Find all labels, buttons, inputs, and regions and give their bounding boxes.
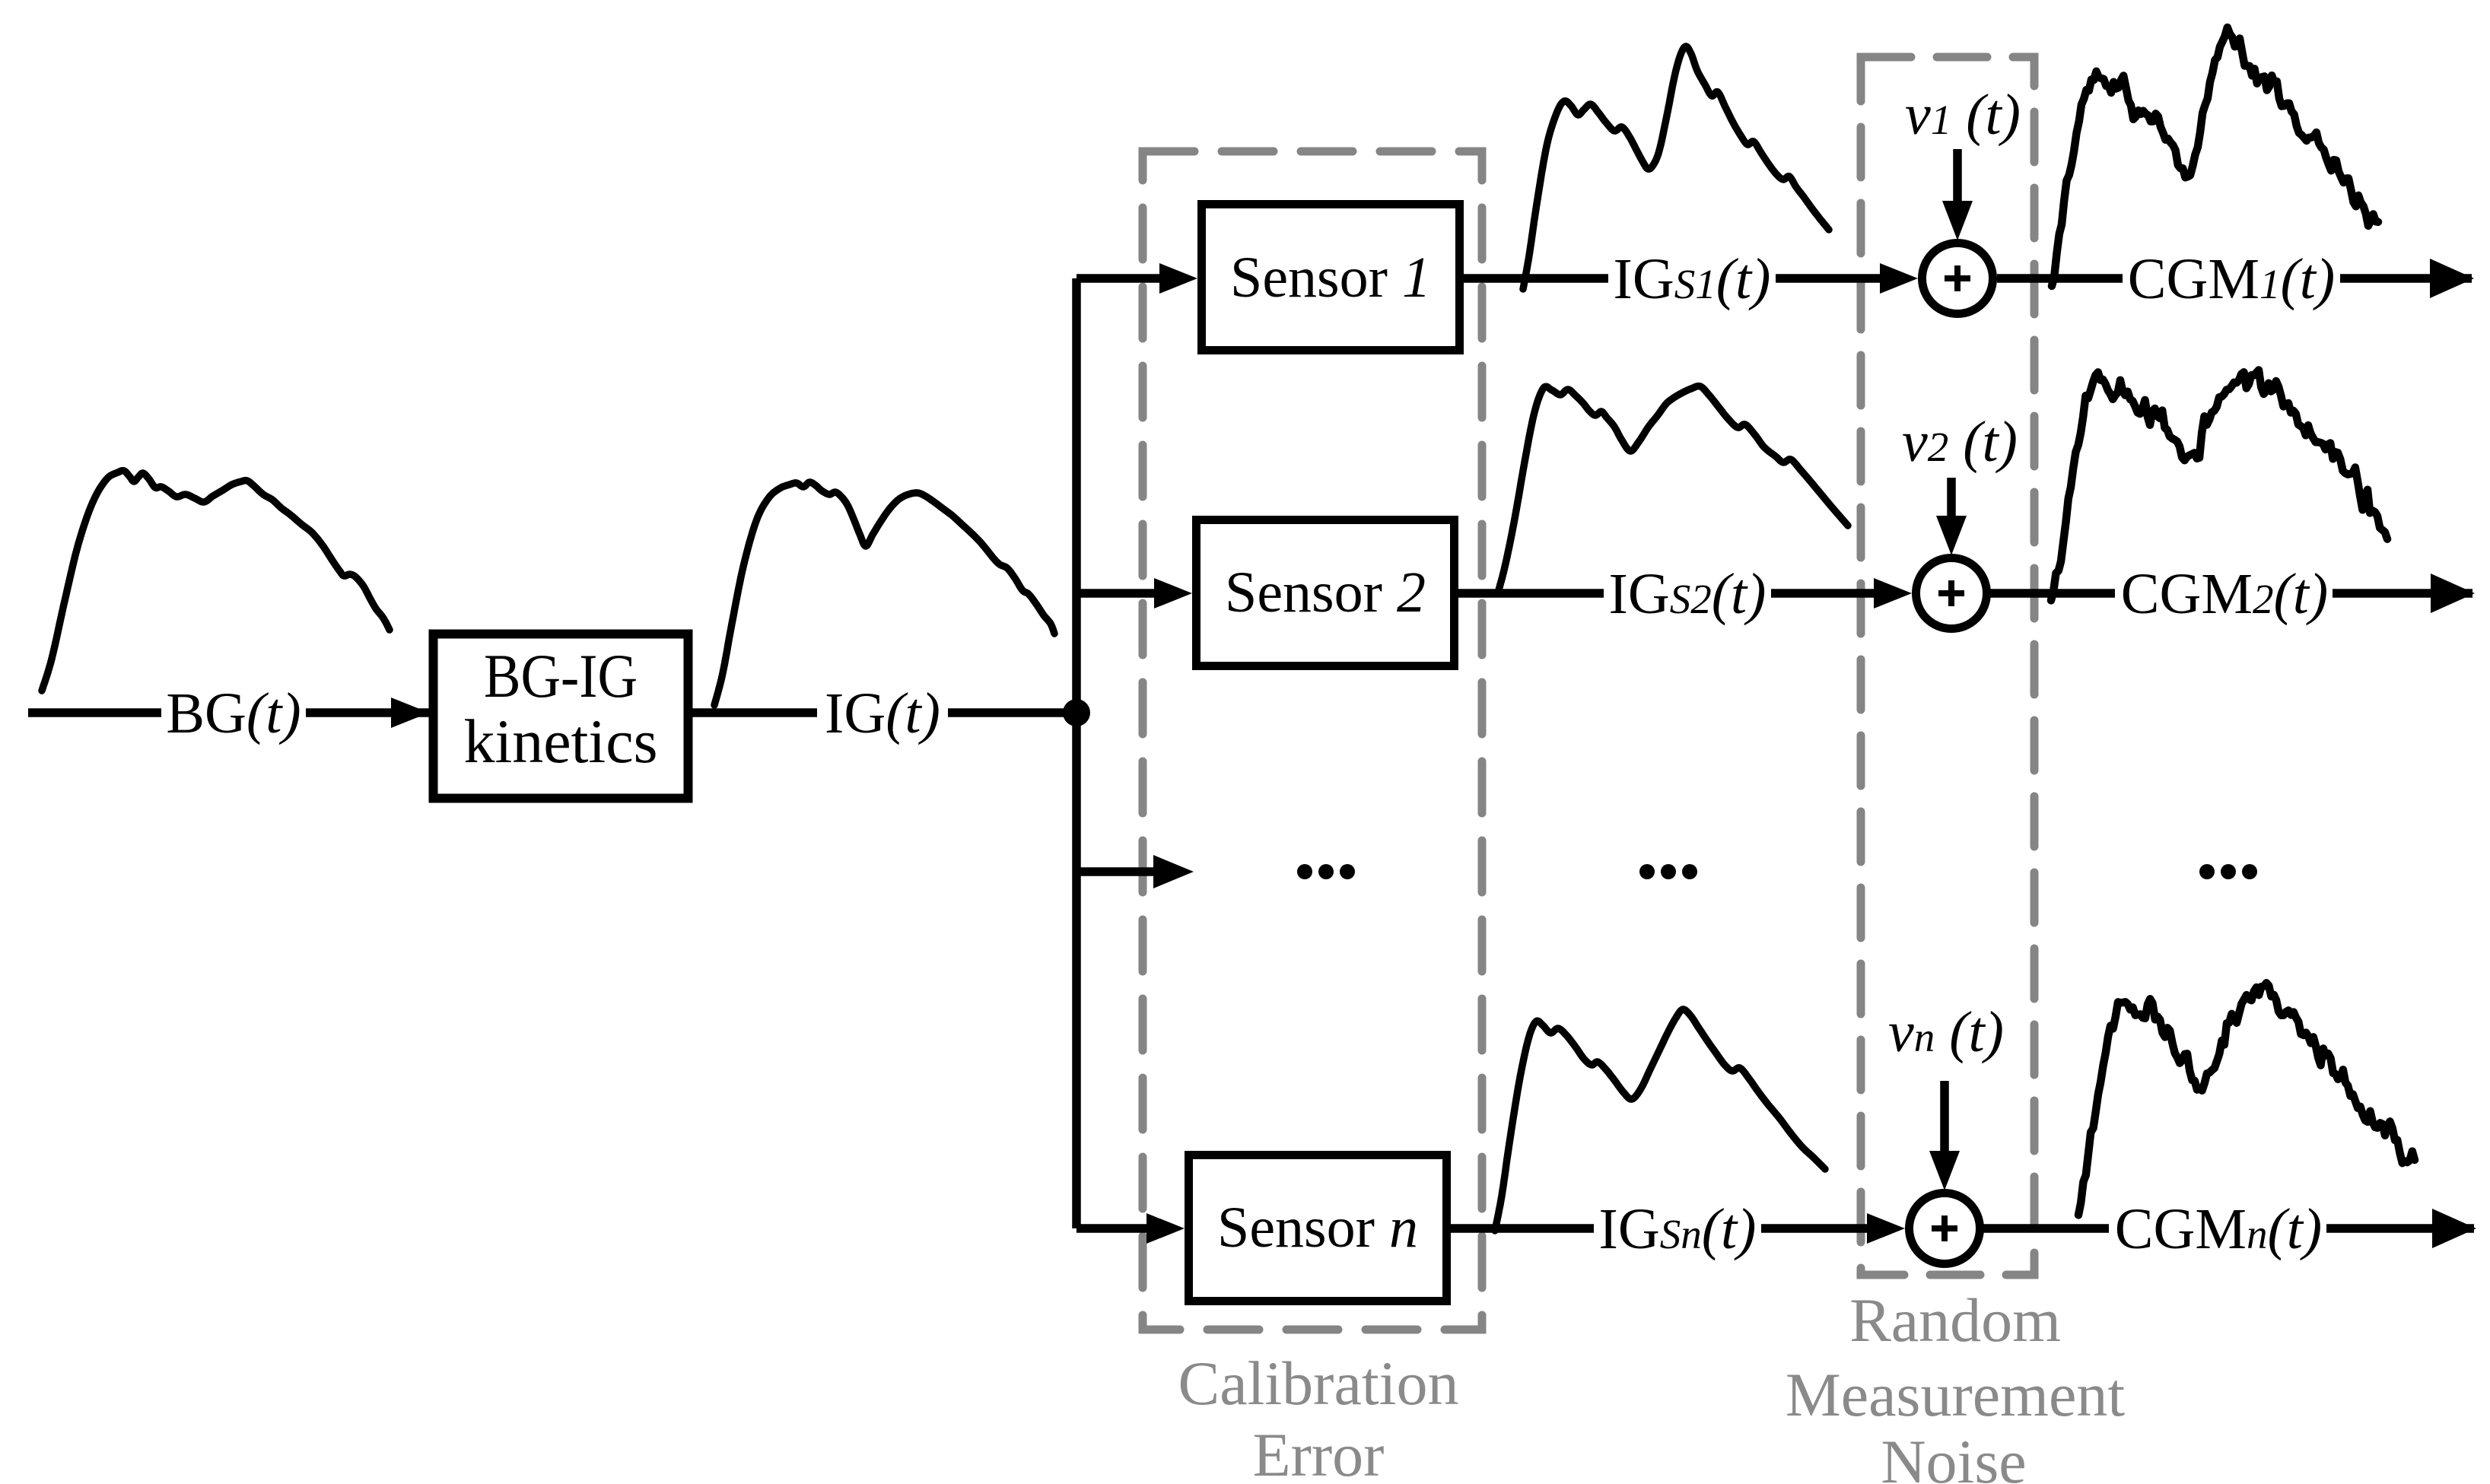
- svg-text:Sensor 2: Sensor 2: [1225, 561, 1426, 624]
- svg-text:Sensor n: Sensor n: [1217, 1196, 1418, 1260]
- svg-text:Noise: Noise: [1881, 1427, 2026, 1484]
- label IGs2(t): [1604, 560, 1771, 628]
- wire CGM2(t) output: [1986, 589, 2473, 598]
- terminal arrowhead CGM2: [2431, 574, 2475, 613]
- wire branch to Sensor 1: [1076, 274, 1159, 283]
- branch wire vertical: [1072, 278, 1081, 1228]
- arrowhead middle row: [1153, 855, 1194, 888]
- block Sensor n: [1189, 1155, 1447, 1301]
- label IG(t): [817, 675, 948, 750]
- arrowhead into adder 1: [1880, 263, 1918, 294]
- svg-text:IG(t): IG(t): [825, 682, 940, 745]
- svg-text:Error: Error: [1252, 1420, 1384, 1484]
- svg-text:BG-IG: BG-IG: [484, 641, 638, 710]
- wire branch middle (ellipsis row): [1076, 867, 1153, 876]
- svg-text:Calibration: Calibration: [1178, 1349, 1459, 1418]
- adder n: [1910, 1193, 1980, 1264]
- block Sensor 1: [1202, 205, 1460, 351]
- arrowhead into Sensor 1: [1159, 263, 1197, 294]
- arrowhead into Sensor n: [1146, 1213, 1185, 1244]
- arrowhead into Sensor 2: [1154, 578, 1192, 609]
- wire BG(t) input: [28, 708, 429, 717]
- glucose trace above IG(t): [714, 482, 1054, 705]
- ellipsis dots sensor column: [1297, 864, 1355, 879]
- arrowhead into adder 2: [1874, 578, 1912, 609]
- label IGs1(t): [1608, 245, 1776, 313]
- wire branch to Sensor 2: [1076, 589, 1154, 598]
- svg-text:Measurement: Measurement: [1786, 1360, 2125, 1429]
- wire IG(t): [692, 708, 1076, 717]
- glucose trace above IGs1: [1523, 46, 1829, 289]
- wire IGs1(t): [1460, 274, 1880, 283]
- svg-text:kinetics: kinetics: [463, 707, 657, 776]
- label CGM1(t): [2123, 245, 2340, 313]
- terminal arrowhead CGM1: [2430, 259, 2474, 298]
- noisy trace above CGMn: [2078, 983, 2415, 1215]
- block BG-IG kinetics: [434, 634, 688, 799]
- wire CGM1(t) output: [1997, 274, 2472, 283]
- svg-text:BG(t): BG(t): [166, 682, 301, 745]
- arrow v1 into adder 1: [1953, 149, 1962, 201]
- svg-text:CGM2(t): CGM2(t): [2121, 562, 2328, 626]
- adder 1: [1922, 243, 1993, 314]
- svg-text:v2 (t): v2 (t): [1902, 410, 2018, 474]
- random measurement noise dashed region: [1861, 57, 2034, 1275]
- noisy trace above CGM2: [2051, 370, 2387, 601]
- svg-text:Sensor 1: Sensor 1: [1230, 246, 1431, 310]
- wire branch to Sensor n: [1076, 1224, 1146, 1233]
- noisy trace above CGM1: [2052, 27, 2378, 286]
- svg-text:v1 (t): v1 (t): [1905, 83, 2021, 147]
- label CGM2(t): [2115, 560, 2333, 628]
- svg-text:CGMn(t): CGMn(t): [2115, 1197, 2322, 1261]
- ellipsis dots signal column: [1639, 864, 1697, 879]
- terminal arrowhead CGMn: [2432, 1209, 2476, 1248]
- arrowhead into adder n: [1867, 1213, 1905, 1244]
- label BG(t): [161, 675, 306, 750]
- wire CGMn(t) output: [1980, 1224, 2474, 1233]
- arrowhead into BG-IG kinetics: [391, 698, 429, 728]
- svg-text:CGM1(t): CGM1(t): [2128, 247, 2335, 311]
- label IGsn(t): [1594, 1195, 1761, 1263]
- arrow vn into adder n: [1940, 1081, 1949, 1151]
- label CGMn(t): [2109, 1195, 2326, 1263]
- ellipsis dots output column: [2199, 864, 2257, 879]
- svg-text:vn (t): vn (t): [1888, 1000, 2004, 1064]
- glucose trace above IGsn: [1495, 1009, 1825, 1231]
- block Sensor 2: [1197, 520, 1455, 666]
- calibration error dashed region: [1143, 151, 1482, 1330]
- adder 2: [1916, 558, 1987, 629]
- wire IGsn(t): [1446, 1224, 1867, 1233]
- wire IGs2(t): [1454, 589, 1874, 598]
- glucose trace above BG(t): [42, 471, 390, 691]
- junction node dot: [1063, 699, 1090, 726]
- arrow v2 into adder 2: [1947, 478, 1956, 516]
- svg-text:Random: Random: [1849, 1285, 2061, 1355]
- glucose trace above IGs2: [1499, 386, 1848, 590]
